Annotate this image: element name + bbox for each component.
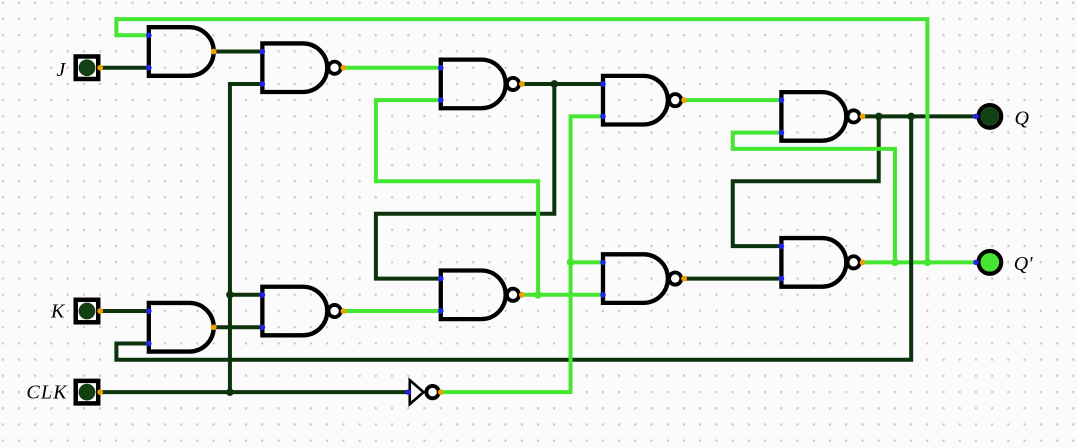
svg-text:K: K: [50, 301, 66, 323]
svg-text:Q: Q: [1015, 108, 1030, 130]
svg-text:J: J: [56, 59, 66, 81]
svg-text:Q′: Q′: [1014, 253, 1033, 275]
svg-text:CLK: CLK: [26, 381, 68, 403]
